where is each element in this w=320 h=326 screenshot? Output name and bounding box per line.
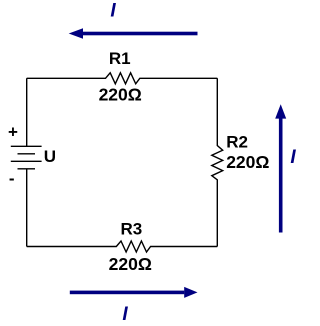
svg-text:I: I	[110, 1, 116, 22]
svg-text:R3: R3	[121, 219, 143, 238]
svg-text:R2: R2	[226, 133, 248, 152]
svg-text:-: -	[9, 169, 15, 188]
svg-text:I: I	[290, 147, 296, 168]
svg-text:220Ω: 220Ω	[99, 85, 142, 105]
svg-text:220Ω: 220Ω	[226, 152, 269, 172]
wire right with resistor R2 zigzag	[212, 78, 223, 246]
battery U plate short bottom	[18, 168, 36, 170]
current arrow top (pointing left)	[69, 28, 198, 39]
current arrow bottom (pointing right)	[70, 287, 198, 298]
svg-text:I: I	[122, 304, 128, 325]
svg-text:U: U	[44, 147, 56, 166]
svg-text:220Ω: 220Ω	[109, 254, 152, 274]
wire top with resistor R1 zigzag	[27, 73, 218, 84]
battery U plate long top	[11, 145, 42, 147]
wire left (battery leads)	[26, 78, 28, 246]
svg-text:R1: R1	[109, 49, 131, 68]
battery U plate short upper	[18, 153, 36, 155]
battery U plate long lower	[11, 160, 42, 162]
svg-text:+: +	[8, 123, 18, 142]
current arrow right (pointing up)	[275, 104, 286, 232]
wire bottom with resistor R3 zigzag	[27, 241, 218, 252]
